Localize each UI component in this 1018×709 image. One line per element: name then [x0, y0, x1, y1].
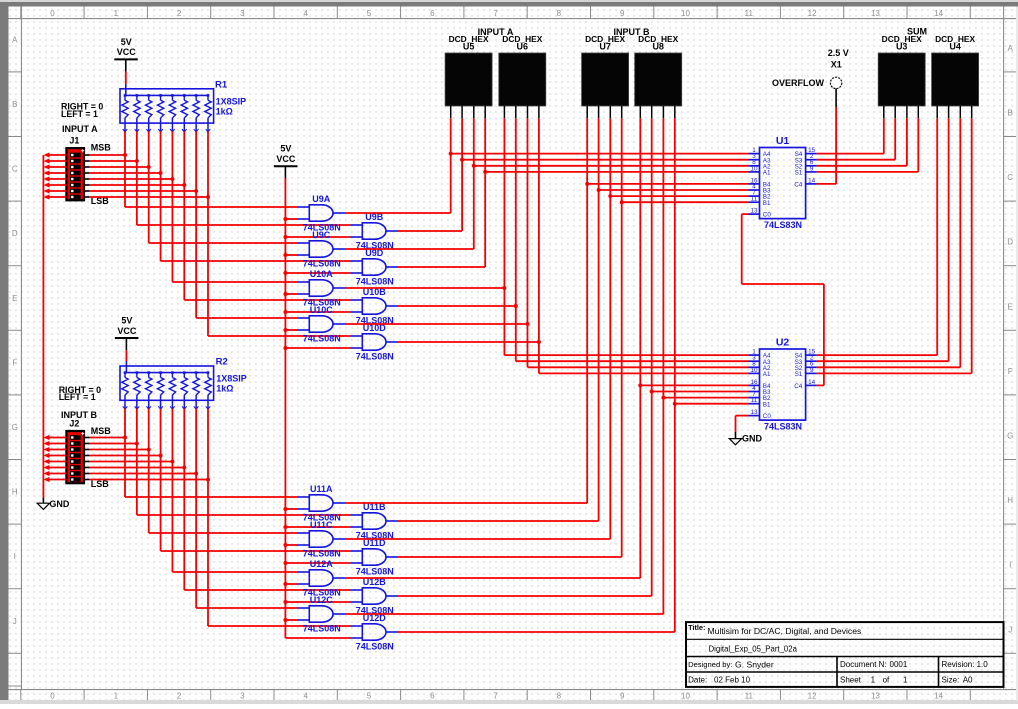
- svg-text:INPUT A: INPUT A: [478, 27, 514, 37]
- power symbol VCC for AND-gate enable bus (U9/U10/U11/U12) (5V): [274, 144, 298, 179]
- svg-text:INPUT B: INPUT B: [614, 27, 651, 37]
- svg-text:Sheet: Sheet: [840, 675, 862, 684]
- svg-text:S1: S1: [795, 170, 803, 177]
- svg-text:C4: C4: [794, 182, 803, 189]
- svg-text:12: 12: [808, 691, 817, 700]
- svg-text:Designed by:: Designed by:: [688, 660, 732, 669]
- svg-text:1: 1: [871, 675, 876, 684]
- svg-text:A: A: [1008, 44, 1014, 53]
- svg-text:10: 10: [681, 9, 690, 18]
- svg-text:E: E: [1008, 302, 1013, 311]
- AND gate U10D 74LS08N: [351, 334, 399, 350]
- label U7 DCD_HEX: [585, 34, 625, 51]
- svg-text:0001: 0001: [890, 660, 908, 669]
- label U5 DCD_HEX: [449, 34, 489, 51]
- wire net U9C output to U5 pin and adder input: [345, 118, 749, 249]
- AND gate U12A 74LS08N: [298, 570, 346, 586]
- svg-text:11: 11: [745, 9, 754, 18]
- svg-text:9: 9: [620, 691, 625, 700]
- svg-text:10: 10: [681, 691, 690, 700]
- wire net U9A output to U5 pin and adder input: [345, 118, 749, 213]
- svg-text:GND: GND: [742, 434, 763, 444]
- label U6 DCD_HEX: [502, 34, 542, 51]
- svg-text:74LS08N: 74LS08N: [303, 258, 341, 268]
- svg-text:3: 3: [240, 9, 245, 18]
- svg-text:3: 3: [240, 691, 245, 700]
- svg-text:U12A: U12A: [310, 559, 334, 569]
- wire net U11A output to U7 pin and adder input: [345, 118, 749, 503]
- wire VCC to R1 common pin: [125, 72, 127, 96]
- svg-text:5V: 5V: [121, 37, 132, 47]
- wire net INPUT-A bit 1 : J1 pin 8 / R1 pin 8 / U10D input: [90, 131, 351, 336]
- svg-text:14: 14: [934, 691, 943, 700]
- svg-text:4: 4: [303, 9, 308, 18]
- wire VCC bus feeding second input of all AND gates: [283, 178, 350, 638]
- svg-text:12: 12: [808, 9, 817, 18]
- svg-text:11: 11: [751, 196, 758, 203]
- svg-text:I: I: [1009, 561, 1011, 570]
- svg-text:H: H: [1007, 496, 1013, 505]
- wire net carry U2.C4 to U1.C0: [742, 214, 824, 385]
- title block: [686, 622, 1004, 687]
- svg-text:10: 10: [750, 367, 758, 374]
- svg-text:1kΩ: 1kΩ: [216, 106, 233, 116]
- svg-text:A: A: [12, 35, 18, 44]
- svg-text:Document N:: Document N:: [840, 660, 887, 669]
- svg-text:Multisim for DC/AC, Digital, a: Multisim for DC/AC, Digital, and Devices: [708, 626, 862, 636]
- svg-text:X1: X1: [831, 59, 842, 69]
- wire net U9D output to U5 pin and adder input: [398, 118, 749, 267]
- wire net U10A output to U6 pin and adder input: [345, 118, 749, 355]
- wire GND bus (J1/J2 common pins to ground): [43, 152, 66, 497]
- svg-text:J: J: [1008, 625, 1012, 634]
- svg-text:U11C: U11C: [310, 520, 333, 530]
- wire net U9B output to U5 pin and adder input: [398, 118, 749, 231]
- svg-text:Title:: Title:: [688, 623, 705, 632]
- wire net INPUT-B bit 6 : J2 pin 3 / R2 pin 3 / U11C input: [90, 409, 298, 533]
- svg-text:74LS08N: 74LS08N: [356, 351, 394, 361]
- svg-text:U10C: U10C: [310, 305, 334, 315]
- display U6 DCD_HEX: [499, 53, 546, 118]
- AND gate U9A 74LS08N: [298, 205, 346, 221]
- svg-text:S1: S1: [795, 371, 803, 378]
- svg-text:VCC: VCC: [117, 47, 137, 57]
- wire net INPUT-A bit 8 : J1 pin 1 / R1 pin 1 / U9A input: [90, 131, 298, 207]
- wire net INPUT-B bit 3 : J2 pin 6 / R2 pin 6 / U12B input: [90, 409, 351, 590]
- wire net INPUT-B bit 5 : J2 pin 4 / R2 pin 4 / U11D input: [90, 409, 351, 551]
- svg-text:of: of: [883, 675, 890, 684]
- svg-text:U8: U8: [652, 42, 664, 52]
- svg-text:B1: B1: [763, 401, 771, 408]
- svg-text:GND: GND: [49, 499, 70, 509]
- svg-text:U3: U3: [896, 42, 908, 52]
- AND gate U10A 74LS08N: [298, 280, 346, 296]
- wire net INPUT-A bit 5 : J1 pin 4 / R1 pin 4 / U9D input: [90, 131, 351, 261]
- svg-text:74LS08N: 74LS08N: [303, 548, 341, 558]
- wire net INPUT-B bit 8 : J2 pin 1 / R2 pin 1 / U11A input: [90, 409, 298, 497]
- svg-text:11: 11: [751, 397, 758, 404]
- svg-text:7: 7: [493, 691, 498, 700]
- svg-text:J: J: [13, 617, 17, 626]
- ground symbol (left, J1/J2 common): [37, 498, 70, 510]
- svg-text:U4: U4: [949, 42, 961, 52]
- AND gate U12B 74LS08N: [351, 588, 399, 604]
- power symbol VCC for R1 (5V): [114, 37, 138, 72]
- svg-text:SUM: SUM: [907, 26, 927, 36]
- svg-text:C: C: [1007, 173, 1013, 182]
- svg-text:13: 13: [871, 9, 880, 18]
- svg-text:E: E: [12, 294, 17, 303]
- wire net U2.C0 to ground: [736, 416, 749, 432]
- wire net U2.S3 to U4 pin 2: [817, 118, 949, 361]
- label R2 value: [216, 357, 247, 394]
- svg-text:U5: U5: [463, 42, 475, 52]
- svg-text:G: G: [12, 423, 18, 432]
- svg-text:74LS08N: 74LS08N: [303, 623, 341, 633]
- power symbol VCC for R2 (5V): [115, 315, 138, 350]
- AND gate U11B 74LS08N: [351, 513, 399, 529]
- label R1 value: [215, 79, 246, 116]
- svg-text:14: 14: [808, 177, 816, 184]
- svg-text:C0: C0: [763, 212, 772, 219]
- svg-text:Digital_Exp_05_Part_02a: Digital_Exp_05_Part_02a: [709, 645, 798, 654]
- title block field Size: [942, 675, 974, 684]
- svg-text:R2: R2: [216, 357, 228, 368]
- wire net INPUT-A bit 2 : J1 pin 7 / R1 pin 7 / U10C input: [90, 131, 298, 318]
- svg-text:13: 13: [871, 691, 880, 700]
- wire net U12D output to U8 pin and adder input: [398, 118, 749, 632]
- svg-text:74LS08N: 74LS08N: [303, 333, 341, 343]
- svg-text:LEFT = 1: LEFT = 1: [61, 109, 98, 119]
- svg-text:5: 5: [367, 9, 372, 18]
- connector J1 (8-position DIP header): [66, 148, 89, 200]
- svg-text:8: 8: [557, 691, 562, 700]
- wire net INPUT-A bit 4 : J1 pin 5 / R1 pin 5 / U10A input: [90, 131, 298, 282]
- AND gate U9C 74LS08N: [298, 241, 346, 257]
- svg-text:2: 2: [177, 691, 182, 700]
- svg-text:F: F: [1008, 367, 1013, 376]
- wire net U10C output to U6 pin and adder input: [345, 118, 749, 367]
- resistor network R1 1X8SIP 1kΩ: [120, 89, 214, 132]
- display U3 DCD_HEX: [878, 53, 925, 118]
- display U8 DCD_HEX: [635, 53, 682, 118]
- AND gate U11C 74LS08N: [298, 531, 346, 547]
- svg-text:0: 0: [50, 691, 55, 700]
- svg-text:J2: J2: [69, 418, 79, 428]
- svg-text:9: 9: [810, 165, 814, 172]
- svg-text:9: 9: [810, 367, 814, 374]
- AND gate U9B 74LS08N: [351, 223, 399, 239]
- title block field Date: [688, 675, 750, 684]
- wire net U2.S4 to U4 pin 1: [817, 118, 938, 355]
- svg-text:11: 11: [745, 691, 754, 700]
- legend RIGHT = 0 / LEFT = 1 (INPUT A): [61, 102, 103, 119]
- svg-text:INPUT A: INPUT A: [62, 124, 98, 134]
- svg-text:6: 6: [430, 691, 435, 700]
- indicator lamp X1 2.5V (OVERFLOW): [830, 77, 841, 107]
- wire net INPUT-A bit 6 : J1 pin 3 / R1 pin 3 / U9C input: [90, 131, 298, 243]
- label U4 DCD_HEX: [935, 34, 975, 51]
- svg-text:Size:: Size:: [942, 675, 960, 684]
- wire net INPUT-A bit 3 : J1 pin 6 / R1 pin 6 / U10B input: [90, 131, 351, 300]
- svg-text:7: 7: [493, 9, 498, 18]
- svg-text:VCC: VCC: [117, 326, 137, 336]
- svg-text:C4: C4: [794, 383, 803, 390]
- svg-text:5V: 5V: [280, 144, 291, 154]
- wire net U1.S1 to U3 pin 4: [817, 118, 919, 172]
- svg-text:9: 9: [620, 9, 625, 18]
- svg-text:2: 2: [177, 9, 182, 18]
- svg-text:13: 13: [750, 208, 758, 215]
- svg-text:4: 4: [303, 691, 308, 700]
- title block field Sheet: [840, 675, 908, 684]
- svg-text:U9A: U9A: [312, 194, 331, 204]
- svg-text:1: 1: [903, 675, 908, 684]
- svg-text:INPUT B: INPUT B: [61, 410, 98, 420]
- svg-text:14: 14: [934, 9, 943, 18]
- wire net U12B output to U8 pin and adder input: [398, 118, 749, 596]
- svg-text:6: 6: [430, 9, 435, 18]
- svg-text:1X8SIP: 1X8SIP: [216, 96, 247, 106]
- svg-text:U10A: U10A: [310, 269, 334, 279]
- svg-text:Revision:: Revision:: [942, 660, 975, 669]
- svg-text:B: B: [1008, 109, 1013, 118]
- svg-text:B: B: [12, 100, 17, 109]
- svg-text:A0: A0: [963, 675, 973, 684]
- svg-text:MSB: MSB: [91, 426, 112, 436]
- wire net INPUT-B bit 4 : J2 pin 5 / R2 pin 5 / U12A input: [90, 409, 298, 572]
- svg-text:1: 1: [114, 9, 119, 18]
- svg-text:74LS83N: 74LS83N: [764, 421, 802, 431]
- svg-text:02 Feb 10: 02 Feb 10: [714, 675, 751, 684]
- svg-text:74LS08N: 74LS08N: [356, 566, 394, 576]
- svg-text:D: D: [12, 229, 18, 238]
- label U3 DCD_HEX: [882, 34, 922, 51]
- svg-text:1: 1: [114, 691, 119, 700]
- svg-text:1kΩ: 1kΩ: [216, 384, 233, 394]
- wire net U11C output to U7 pin and adder input: [345, 118, 749, 539]
- title block field Title: [688, 623, 861, 636]
- display U7 DCD_HEX: [582, 53, 629, 118]
- wire net INPUT-B bit 2 : J2 pin 7 / R2 pin 7 / U12C input: [90, 409, 298, 608]
- AND gate U10C 74LS08N: [298, 316, 346, 332]
- svg-text:0: 0: [50, 9, 55, 18]
- wire net U10B output to U6 pin and adder input: [398, 118, 749, 361]
- display U4 DCD_HEX: [932, 53, 979, 118]
- adder U2 74LS83N: [749, 349, 817, 421]
- AND gate U9D 74LS08N: [351, 259, 399, 275]
- svg-text:U2: U2: [776, 337, 790, 349]
- AND gate U10B 74LS08N: [351, 298, 399, 314]
- svg-text:74LS83N: 74LS83N: [764, 220, 802, 230]
- svg-text:14: 14: [808, 379, 816, 386]
- svg-text:I: I: [14, 552, 16, 561]
- svg-text:5V: 5V: [121, 315, 132, 325]
- svg-text:1.0: 1.0: [977, 660, 989, 669]
- AND gate U11D 74LS08N: [351, 549, 399, 565]
- title block field Document N: [840, 660, 908, 669]
- wire net U2.S2 to U4 pin 3: [817, 118, 961, 367]
- svg-text:2.5 V: 2.5 V: [828, 48, 849, 58]
- resistor network R2 1X8SIP 1kΩ: [120, 366, 214, 409]
- svg-text:J1: J1: [69, 136, 79, 146]
- wire VCC to R2 common pin: [125, 350, 127, 372]
- title block field Revision: [942, 660, 989, 669]
- svg-text:D: D: [1007, 238, 1013, 247]
- connector J2 (8-position DIP header): [66, 431, 89, 483]
- svg-text:LEFT = 1: LEFT = 1: [59, 392, 96, 402]
- ground symbol (U2.C0): [729, 432, 762, 445]
- svg-text:C: C: [12, 165, 18, 174]
- svg-text:10: 10: [750, 165, 758, 172]
- wire net U1.S4 to U3 pin 1: [817, 118, 884, 153]
- svg-text:G. Snyder: G. Snyder: [735, 659, 774, 669]
- svg-text:B1: B1: [763, 200, 771, 207]
- svg-text:U1: U1: [776, 135, 790, 147]
- svg-text:U9C: U9C: [312, 230, 331, 240]
- wire net U12C output to U8 pin and adder input: [345, 118, 749, 614]
- adder U1 74LS83N: [749, 147, 817, 219]
- AND gate U12D 74LS08N: [351, 624, 399, 640]
- legend RIGHT = 0 / LEFT = 1 (INPUT B): [59, 385, 101, 402]
- svg-text:LSB: LSB: [91, 479, 110, 489]
- label U8 DCD_HEX: [638, 34, 678, 51]
- svg-text:OVERFLOW: OVERFLOW: [772, 78, 825, 88]
- svg-text:U11A: U11A: [310, 484, 333, 494]
- svg-text:8: 8: [557, 9, 562, 18]
- display U5 DCD_HEX: [445, 53, 492, 118]
- svg-text:74LS08N: 74LS08N: [356, 641, 394, 651]
- svg-text:74LS08N: 74LS08N: [356, 276, 394, 286]
- svg-text:5: 5: [367, 691, 372, 700]
- wire net U1.S3 to U3 pin 2: [817, 118, 896, 160]
- wire net U11B output to U7 pin and adder input: [398, 118, 749, 521]
- svg-text:13: 13: [750, 409, 758, 416]
- svg-text:Date:: Date:: [688, 675, 707, 684]
- svg-text:G: G: [1007, 432, 1013, 441]
- svg-text:1X8SIP: 1X8SIP: [216, 374, 247, 384]
- svg-text:F: F: [12, 358, 17, 367]
- wire net U12A output to U8 pin and adder input: [345, 118, 749, 578]
- svg-text:U7: U7: [599, 42, 611, 52]
- svg-text:U6: U6: [517, 42, 529, 52]
- wire net INPUT-B bit 1 : J2 pin 8 / R2 pin 8 / U12D input: [90, 409, 351, 626]
- wire net U10D output to U6 pin and adder input: [398, 118, 749, 373]
- wire net U11D output to U7 pin and adder input: [398, 118, 749, 557]
- svg-text:A1: A1: [763, 170, 771, 177]
- svg-text:C0: C0: [763, 413, 772, 420]
- wire net INPUT-B bit 7 : J2 pin 2 / R2 pin 2 / U11B input: [90, 409, 351, 515]
- wire net U1.S2 to U3 pin 3: [817, 118, 907, 166]
- svg-text:VCC: VCC: [276, 154, 296, 164]
- svg-text:H: H: [12, 488, 18, 497]
- title block field Designed by: [688, 659, 774, 669]
- svg-text:MSB: MSB: [91, 143, 112, 153]
- svg-text:R1: R1: [215, 79, 228, 90]
- AND gate U12C 74LS08N: [298, 606, 346, 622]
- wire net U1.C4 to X1 overflow lamp: [817, 107, 837, 184]
- wire net INPUT-A bit 7 : J1 pin 2 / R1 pin 2 / U9B input: [90, 131, 351, 225]
- AND gate U11A 74LS08N: [298, 495, 346, 511]
- svg-text:U12C: U12C: [310, 595, 334, 605]
- wire net U2.S1 to U4 pin 4: [817, 118, 972, 373]
- svg-text:A1: A1: [763, 371, 771, 378]
